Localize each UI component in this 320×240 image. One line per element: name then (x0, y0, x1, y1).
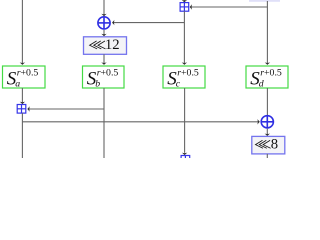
wire a: Sa to adder a (21, 88, 23, 102)
wire xor b to rot12 box (103, 30, 105, 35)
svg-text:r+0.5: r+0.5 (17, 68, 39, 79)
wire d top (266, 1, 268, 63)
state box Sc (163, 66, 205, 90)
state box Sb (83, 66, 125, 90)
svg-text:r+0.5: r+0.5 (97, 68, 119, 79)
arrow into adder C1 (182, 0, 187, 2)
modular add c (boxed plus) (180, 3, 189, 12)
wire c: Sc down to bottom adder (184, 88, 186, 153)
wire d: Sd to xor d (266, 88, 268, 115)
rotate box <<<8 (252, 136, 285, 154)
clipped rotate-box bottom edge (top right, cut off) (249, 0, 280, 2)
xor d (circle plus) (261, 116, 273, 128)
wire b branch to adder a (29, 108, 105, 110)
wire rot12 to Sb (103, 54, 105, 63)
modular add a (boxed plus) (17, 105, 26, 114)
svg-text:r+0.5: r+0.5 (177, 68, 199, 79)
wire a: adder a to bottom (21, 113, 23, 158)
wire a branch to xor d (22, 121, 258, 123)
modular add c2 (clipped at bottom) (181, 156, 190, 165)
wire c to xor b (horizontal branch) (114, 22, 185, 24)
svg-text:d: d (259, 79, 264, 90)
svg-text:b: b (95, 79, 100, 90)
wire xor d to rot8 box (266, 129, 268, 135)
wire b top (103, 0, 105, 15)
svg-text:12: 12 (105, 37, 120, 53)
wire b: Sb down to junction and to bottom (103, 88, 105, 158)
wire c from add box top (183, 0, 185, 2)
svg-text:a: a (15, 79, 20, 90)
wire a top (21, 0, 23, 63)
state box Sa (3, 66, 46, 90)
xor b (circle plus) (98, 17, 110, 29)
wire c down from adder (183, 11, 185, 63)
arrow into xor b (101, 14, 106, 17)
svg-text:r+0.5: r+0.5 (260, 68, 282, 79)
wire d: rot8 to bottom (266, 154, 268, 158)
state box Sd (246, 66, 288, 90)
svg-text:c: c (176, 79, 181, 90)
arrow into Sa (20, 62, 25, 65)
rotate box <<<12 (84, 37, 127, 55)
arrow into Sd (265, 62, 270, 65)
svg-text:8: 8 (271, 136, 278, 152)
wire d to adder c (horizontal) (192, 6, 268, 8)
